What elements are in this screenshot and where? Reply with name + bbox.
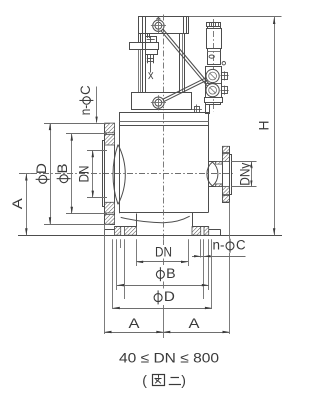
cylinder left wall xyxy=(143,34,146,93)
clamp block xyxy=(130,43,159,50)
left flange hatch top xyxy=(105,123,115,133)
solenoid mid section xyxy=(208,49,221,65)
right flange hatch 2 xyxy=(223,154,230,162)
left flange raised face xyxy=(103,141,105,207)
bottom flange hatch c xyxy=(192,227,201,236)
right neck weld top xyxy=(216,162,223,165)
ext line bolt left b xyxy=(124,239,126,299)
diagonal rod from top eye to lower solenoid port xyxy=(161,29,210,87)
label DN left xyxy=(76,166,91,183)
horizontal port centerline xyxy=(19,173,234,175)
label n-phiC top xyxy=(78,85,93,115)
cylinder right wall xyxy=(180,34,185,93)
left flange hatch bottom xyxy=(105,215,115,225)
bonnet plate xyxy=(120,113,209,126)
ext line flange face left / A xyxy=(104,225,106,334)
ext line center bottom xyxy=(163,239,165,338)
phiB bottom extension xyxy=(66,213,107,215)
label A bottom right xyxy=(189,316,200,331)
svg-text:D: D xyxy=(164,289,175,304)
label DN bottom xyxy=(155,245,172,260)
bonnet gasket line xyxy=(120,121,209,123)
svg-text:DN: DN xyxy=(76,166,91,183)
DNy top extension xyxy=(231,161,256,163)
caption size range xyxy=(119,350,219,366)
solenoid coil body xyxy=(207,29,222,49)
bottom flange hatch a xyxy=(115,227,121,236)
label phiD bottom xyxy=(154,289,175,304)
small circle on solenoid xyxy=(222,62,225,65)
right port bore lens xyxy=(207,162,218,186)
dimension line DN left xyxy=(92,150,95,197)
right port neck top xyxy=(209,161,223,163)
H top extension line xyxy=(189,16,282,18)
bottom neck left wall xyxy=(136,214,138,227)
clamp lower step xyxy=(146,50,158,55)
bottom flange tip step left xyxy=(105,227,115,230)
phiD bottom extension xyxy=(44,224,110,226)
svg-text:n-: n- xyxy=(78,105,93,116)
baseline extension line xyxy=(18,235,282,237)
label phiD left xyxy=(34,163,49,183)
ext line DN bottom right xyxy=(188,239,190,266)
top lifting eye xyxy=(151,17,166,33)
solenoid block divider xyxy=(206,83,222,85)
bottom lifting eye xyxy=(151,95,166,110)
ext line phiD bottom right xyxy=(211,239,213,309)
cotter pin xyxy=(147,54,154,79)
label A left xyxy=(10,198,25,209)
stem rods below clamp xyxy=(148,54,154,63)
bottom flange hatch b xyxy=(125,227,137,236)
solenoid mid line xyxy=(207,51,220,53)
body right wall xyxy=(208,126,210,213)
stem links between plate and clamp xyxy=(139,34,150,42)
bottom flange hub top left xyxy=(115,226,137,228)
dimension line H xyxy=(273,17,276,235)
svg-text:): ) xyxy=(181,372,186,388)
dimension line phiB left xyxy=(71,134,74,214)
label phiB bottom xyxy=(156,266,175,281)
bottom neck right wall xyxy=(192,212,194,227)
lower port circle xyxy=(206,84,219,97)
ext line phiD bottom left xyxy=(112,239,114,309)
label H xyxy=(257,121,272,131)
svg-text:C: C xyxy=(78,85,93,95)
svg-text:D: D xyxy=(34,163,49,174)
svg-text:DNy: DNy xyxy=(237,162,252,185)
air fitting on bonnet xyxy=(192,105,202,114)
dimension row DN xyxy=(136,261,188,264)
lower side bolt xyxy=(221,86,229,95)
solenoid valve block xyxy=(206,67,222,98)
diagonal rod from bottom eye to upper solenoid port xyxy=(163,77,208,101)
right flange hatch 4 xyxy=(223,195,230,202)
centerline tick for A xyxy=(20,173,34,175)
dimension row phiD xyxy=(113,307,212,309)
body left wall xyxy=(119,126,121,214)
cylinder vertical centerline xyxy=(163,15,165,111)
solenoid ribbed cap xyxy=(207,22,221,26)
caption figure glyph tu xyxy=(153,375,165,386)
left port bore lens xyxy=(113,145,125,205)
solenoid base lip xyxy=(206,103,221,105)
label DNy xyxy=(237,162,252,185)
left flange hatch top2 xyxy=(105,134,115,145)
phiD top extension xyxy=(44,123,110,125)
ext line bolt right a xyxy=(200,239,202,257)
solenoid cap lip xyxy=(208,27,221,29)
label A bottom left xyxy=(129,316,140,331)
caption figure glyph er xyxy=(169,378,181,385)
body bottom edge xyxy=(120,212,209,214)
svg-text:A: A xyxy=(129,316,140,331)
svg-text:B: B xyxy=(55,163,70,173)
svg-text:H: H xyxy=(257,121,272,131)
svg-text:B: B xyxy=(166,266,176,281)
ext line phiB bottom left xyxy=(116,239,118,290)
solenoid mounting bracket xyxy=(206,105,210,114)
right flange raised face xyxy=(230,155,232,195)
leader n-phiC bottom xyxy=(192,255,246,257)
dimension row phiB xyxy=(117,284,209,287)
caption figure number parens xyxy=(142,372,186,388)
right neck weld bottom xyxy=(216,184,223,187)
right flange hatch 1 xyxy=(223,146,230,152)
dimension line phiD left xyxy=(49,123,51,224)
DN bottom extension xyxy=(87,197,107,199)
DN top extension xyxy=(87,150,107,152)
leader n-phiC top xyxy=(95,87,97,124)
dimension line A left xyxy=(25,174,28,236)
bottom flange hatch d xyxy=(204,227,209,236)
tie rod lines in top plate xyxy=(143,17,187,34)
DNy bottom extension xyxy=(231,186,256,188)
ext line phiB bottom right xyxy=(208,239,210,290)
phiB top extension xyxy=(66,133,107,135)
label phiB left xyxy=(55,163,70,182)
upper side bolt xyxy=(221,71,229,80)
svg-text:(: ( xyxy=(142,372,147,388)
label n-phiC bottom xyxy=(213,237,246,252)
ext line bolt left a xyxy=(120,239,122,248)
clamp raised boss xyxy=(146,37,157,43)
actuator top plate xyxy=(139,17,189,34)
solenoid base plate xyxy=(205,98,223,103)
dimension row A-A xyxy=(105,331,230,333)
svg-text:A: A xyxy=(10,198,25,209)
svg-text:n-: n- xyxy=(213,237,225,252)
body bottom curve xyxy=(121,216,190,223)
right port neck bottom xyxy=(209,186,223,188)
svg-text:DN: DN xyxy=(155,245,172,260)
bottom flange hub top right xyxy=(192,226,209,228)
actuator bottom plate xyxy=(132,93,192,110)
svg-text:C: C xyxy=(236,237,246,252)
left flange outline xyxy=(105,124,115,225)
dimension line DNy xyxy=(250,162,252,187)
bottom flange tip step right xyxy=(209,227,221,230)
right flange hatch 3 xyxy=(223,187,230,195)
left flange hatch bottom2 xyxy=(105,202,115,213)
ext line DN bottom left xyxy=(136,239,138,266)
ext line bolt right b xyxy=(203,239,205,299)
upper port circle xyxy=(206,69,219,82)
ext line A right xyxy=(229,202,231,334)
bottom flange outer edges xyxy=(105,230,221,236)
svg-text:A: A xyxy=(189,316,200,331)
main vertical centerline body xyxy=(163,114,165,239)
right flange outline xyxy=(223,147,230,203)
tie rods below clamp xyxy=(139,50,141,93)
solenoid centerline xyxy=(213,19,215,112)
solenoid oval port xyxy=(209,55,214,58)
svg-text:40 ≤ DN ≤ 800: 40 ≤ DN ≤ 800 xyxy=(119,350,219,366)
